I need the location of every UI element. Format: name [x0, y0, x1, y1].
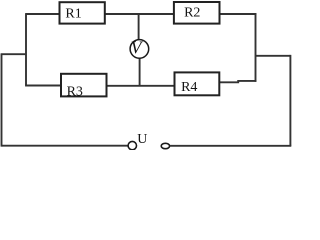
wire right-outer-vertical — [289, 55, 291, 146]
wire bottom-left — [2, 145, 128, 147]
resistor R2 — [174, 2, 220, 24]
wire right-inner-vertical — [255, 13, 257, 82]
wire left-outer-vertical — [1, 54, 3, 146]
resistor R1 — [60, 2, 105, 23]
wire meter-top — [138, 14, 140, 40]
svg-text:R4: R4 — [181, 80, 197, 95]
wire top-right — [219, 13, 256, 15]
wire R3-left — [25, 85, 62, 87]
wire top-middle — [104, 13, 175, 15]
wire R4-right — [219, 81, 256, 82]
resistor R3 — [61, 74, 107, 97]
voltmeter V — [130, 40, 149, 59]
wire right-stub — [256, 55, 291, 57]
svg-text:U: U — [137, 132, 147, 147]
wire bottom-right — [170, 145, 291, 147]
wire top-left — [26, 13, 60, 15]
wire left-inner-vertical — [25, 13, 27, 85]
wire left-stub — [1, 53, 26, 55]
svg-text:R1: R1 — [65, 7, 81, 22]
terminal right — [161, 143, 169, 148]
resistor R4 — [175, 72, 220, 95]
wire meter-bottom — [139, 59, 141, 86]
terminal left — [128, 141, 136, 149]
svg-text:R3: R3 — [67, 84, 83, 99]
svg-text:R2: R2 — [184, 5, 200, 20]
wire R3-R4 — [106, 85, 175, 87]
